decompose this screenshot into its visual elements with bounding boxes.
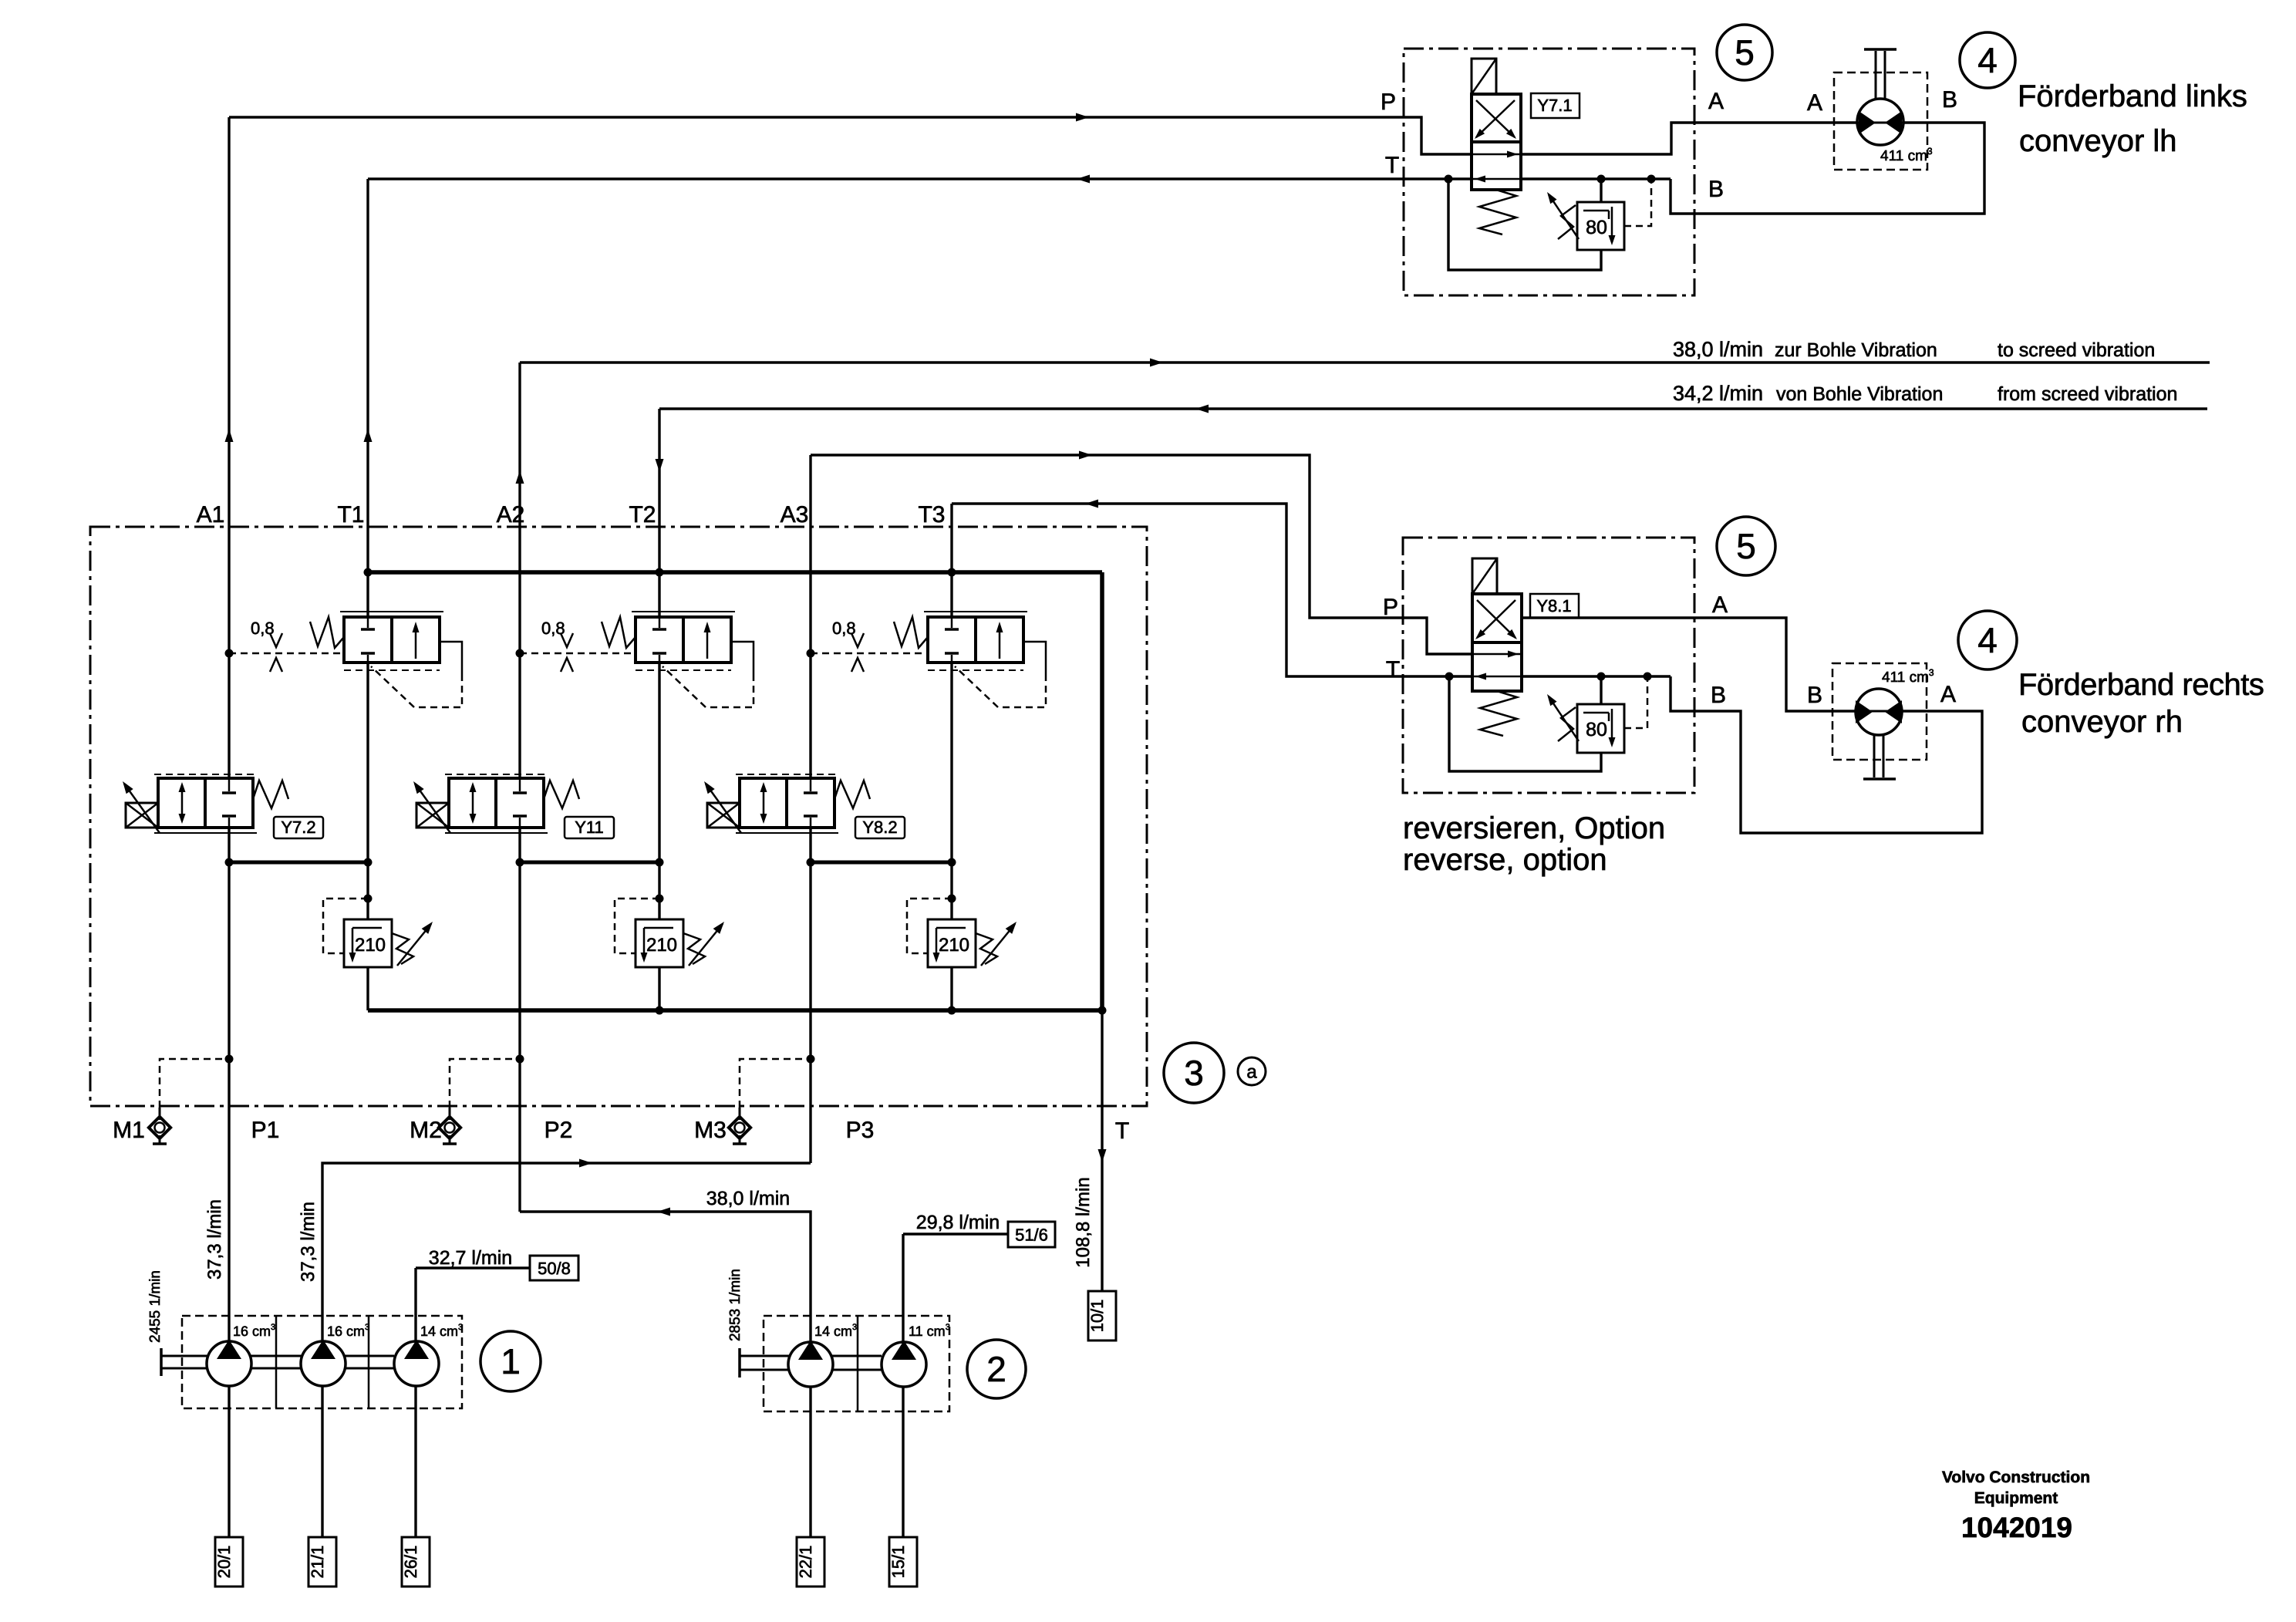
svg-text:Volvo Construction: Volvo Construction [1942, 1469, 2090, 1486]
compensator spring 2 [602, 617, 636, 648]
callout circle 2 [967, 1340, 1026, 1398]
wire conveyor-lh B step [1671, 123, 1984, 214]
pump group 2 enclosure [764, 1316, 949, 1411]
svg-text:37,3 l/min: 37,3 l/min [298, 1202, 319, 1282]
pump 1-2 [301, 1341, 346, 1386]
spring below valve Y7.1 [1479, 190, 1516, 234]
svg-text:A1: A1 [197, 502, 225, 528]
svg-text:4: 4 [1977, 620, 1998, 660]
wire P2 to pump2-1 (38,0 l/min) [520, 1212, 811, 1342]
svg-text:conveyor lh: conveyor lh [2019, 124, 2177, 158]
wire conveyor-rh A line [1520, 618, 1856, 711]
wire A1/P1 riser [228, 117, 230, 778]
wire A3/P3 riser [809, 455, 811, 778]
pump group 1 shaft [161, 1355, 394, 1357]
solenoid of valve Y8.1 [1472, 558, 1497, 594]
callout circle 4 upper [1960, 32, 2015, 88]
valve block 5 lower enclosure (dash-dot) [1403, 538, 1694, 793]
wire von Bohle Vibration line [659, 407, 2207, 410]
svg-text:B: B [1807, 683, 1822, 708]
pump group 1 enclosure [182, 1316, 462, 1408]
label Y7.1 [1531, 93, 1580, 118]
pump 1-1 [207, 1341, 251, 1386]
svg-text:26/1: 26/1 [401, 1546, 420, 1579]
relief 80 lower adjust arrow [1549, 696, 1579, 741]
wire pump2-1 lower to connector 22/1 [809, 1387, 811, 1537]
motor rh drain shaft [1873, 735, 1876, 777]
svg-text:a: a [1246, 1061, 1257, 1082]
svg-text:T3: T3 [918, 502, 945, 528]
connector 51/6 [1008, 1222, 1055, 1247]
svg-text:21/1: 21/1 [308, 1546, 327, 1579]
svg-text:Y8.1: Y8.1 [1536, 596, 1571, 615]
svg-text:P: P [1383, 595, 1398, 620]
motor lh drain shaft [1875, 51, 1877, 99]
svg-text:T: T [1386, 657, 1400, 683]
wire pump1-3 to 50/8 [416, 1266, 530, 1269]
svg-text:38,0 l/min: 38,0 l/min [1673, 338, 1763, 361]
wire A3 to conveyor-rh P port [811, 455, 1472, 654]
measuring port M2 pilot (dashed) [450, 1059, 520, 1108]
svg-text:29,8 l/min: 29,8 l/min [916, 1212, 1000, 1233]
node T3 lower gallery [948, 1007, 956, 1015]
pilot orifice marks 3 [851, 633, 864, 647]
svg-text:A: A [1712, 592, 1728, 618]
wire relief 80 lower pilot (dashed) [1624, 676, 1647, 728]
pressure relief valve 210 section 3 [928, 919, 976, 967]
wire pump1-2 to P3 port [322, 1163, 811, 1340]
wire relief 80 top stub [1600, 179, 1602, 202]
svg-text:210: 210 [939, 935, 969, 956]
pressure relief valve 80 (conveyor lh) [1577, 202, 1624, 250]
wire T gallery upper (bold) [368, 570, 1102, 575]
node T2 lower gallery [656, 1007, 664, 1015]
relief 210 pilot 1 (dashed) [323, 899, 368, 953]
wire T return from conveyor-lh valve [368, 177, 1671, 180]
svg-text:2: 2 [986, 1349, 1006, 1389]
pilot orifice marks 2 [561, 633, 573, 647]
spring below valve Y8.1 [1480, 691, 1517, 736]
svg-text:Equipment: Equipment [1974, 1489, 2058, 1507]
svg-text:411 cm3: 411 cm3 [1882, 667, 1934, 686]
hydraulic motor M4 rh [1856, 689, 1902, 735]
pressure compensator section 3 [924, 611, 1027, 612]
motor conveyor lh enclosure [1834, 73, 1927, 170]
callout circle a [1238, 1057, 1266, 1085]
proportional directional valve section 2 (solenoid Y11) [445, 774, 548, 775]
svg-text:A: A [1807, 90, 1822, 116]
wire relief Y8.1 bypass loop [1449, 676, 1601, 771]
node T3 gallery junction [948, 568, 956, 577]
svg-text:22/1: 22/1 [796, 1546, 815, 1579]
node T2 gallery junction [656, 568, 664, 577]
svg-text:reverse, option: reverse, option [1403, 843, 1607, 877]
connector 10/1 [1088, 1291, 1116, 1340]
pump 2-2 [882, 1342, 926, 1387]
compensator pilot line 1 (dashed) [229, 653, 344, 655]
relief 210 spring 3 [976, 933, 997, 964]
wire T3 to conveyor-rh T port [952, 504, 1671, 676]
svg-text:B: B [1711, 683, 1726, 708]
svg-text:P3: P3 [846, 1118, 875, 1143]
svg-text:P2: P2 [544, 1118, 573, 1143]
solenoid box section 2 [416, 803, 449, 828]
measuring port M3 pilot (dashed) [740, 1059, 811, 1108]
svg-text:210: 210 [646, 935, 677, 956]
svg-text:80: 80 [1586, 217, 1607, 238]
svg-text:16 cm3: 16 cm3 [233, 1323, 275, 1339]
relief 210 pilot 2 (dashed) [615, 899, 659, 953]
relief 80 adjust arrow [1549, 194, 1579, 239]
wire conveyor-rh B return [1671, 676, 1982, 833]
label Y7.2 [274, 817, 323, 838]
callout circle 4 lower [1958, 611, 2017, 669]
svg-text:Förderband links: Förderband links [2018, 79, 2247, 113]
svg-text:Y7.1: Y7.1 [1537, 96, 1572, 115]
compensator spring 3 [894, 617, 928, 648]
wire T2 riser [658, 409, 660, 617]
pump 1-3 [394, 1341, 439, 1386]
svg-text:A: A [1708, 89, 1724, 114]
svg-text:P: P [1381, 89, 1396, 115]
svg-text:34,2 l/min: 34,2 l/min [1673, 382, 1763, 405]
svg-text:5: 5 [1735, 32, 1755, 73]
svg-text:51/6: 51/6 [1015, 1226, 1048, 1245]
valve spring section 3 [834, 781, 870, 808]
svg-text:Y11: Y11 [575, 818, 604, 837]
valve block 5 upper enclosure (dash-dot) [1404, 49, 1694, 295]
node T2 link [656, 858, 664, 867]
svg-text:T1: T1 [337, 502, 364, 528]
wire relief Y7.1 bypass loop [1448, 179, 1601, 270]
node T3 link [948, 858, 956, 867]
svg-text:Förderband rechts: Förderband rechts [2018, 668, 2264, 702]
connector 22/1 [797, 1537, 824, 1587]
svg-text:14 cm3: 14 cm3 [420, 1323, 463, 1339]
valve spring section 2 [544, 781, 579, 808]
wire zur Bohle Vibration line [520, 361, 2210, 363]
svg-text:2853 1/min: 2853 1/min [727, 1269, 743, 1341]
svg-text:14 cm3: 14 cm3 [814, 1323, 857, 1339]
directional valve Y7.1 body [1472, 94, 1521, 190]
svg-text:B: B [1708, 177, 1724, 202]
proportional directional valve section 3 (solenoid Y8.2) [736, 774, 838, 775]
svg-text:32,7 l/min: 32,7 l/min [429, 1247, 512, 1269]
svg-text:10/1: 10/1 [1087, 1300, 1107, 1333]
motor conveyor rh enclosure [1832, 663, 1927, 760]
svg-text:conveyor rh: conveyor rh [2021, 705, 2183, 739]
svg-text:zur Bohle Vibration: zur Bohle Vibration [1775, 339, 1937, 361]
label Y8.1 [1530, 594, 1579, 618]
svg-text:von Bohle Vibration: von Bohle Vibration [1776, 383, 1943, 405]
svg-text:M1: M1 [113, 1118, 145, 1143]
svg-text:M2: M2 [410, 1118, 442, 1143]
node pilot tap [1647, 175, 1656, 184]
svg-text:2455 1/min: 2455 1/min [147, 1270, 164, 1343]
solenoid box section 3 [707, 803, 740, 828]
measuring port M2 symbol [449, 1108, 451, 1120]
node relief stub 2 [1597, 673, 1606, 681]
svg-text:411 cm3: 411 cm3 [1880, 146, 1933, 164]
node A2 link [516, 858, 524, 867]
solenoid of valve Y7.1 [1472, 59, 1496, 94]
pump group 2 shaft [740, 1355, 882, 1357]
measuring port M3 symbol [739, 1108, 741, 1120]
wire A2/P2 riser [518, 363, 521, 778]
compensator drain pilot 3 [1023, 642, 1046, 674]
label Y8.2 [855, 817, 905, 838]
svg-text:Y8.2: Y8.2 [862, 818, 897, 837]
callout circle 1 [480, 1331, 541, 1391]
valve spring section 1 [253, 781, 288, 808]
node pilot tap 2 [1644, 673, 1652, 681]
wire relief 80 pilot (dashed) [1624, 179, 1651, 226]
pressure compensator section 1 [340, 611, 443, 612]
svg-text:80: 80 [1586, 719, 1607, 740]
solenoid box section 1 [126, 803, 158, 828]
node A3 link [807, 858, 815, 867]
control block enclosure (dash-dot) [90, 527, 1147, 1106]
compensator drain pilot 2 [731, 642, 754, 674]
svg-text:P1: P1 [251, 1118, 280, 1143]
pressure relief valve 80 (conveyor rh) [1577, 704, 1624, 753]
svg-text:1: 1 [501, 1341, 521, 1381]
wire T port to tank connector 10/1 [1101, 1010, 1103, 1291]
relief 210 spring 2 [683, 933, 705, 964]
connector 21/1 [308, 1537, 336, 1587]
svg-text:T: T [1385, 153, 1399, 178]
measuring port M1 symbol [159, 1108, 161, 1120]
wire section1 A1-T1 link [229, 861, 368, 865]
svg-text:37,3 l/min: 37,3 l/min [204, 1199, 225, 1280]
svg-text:5: 5 [1736, 526, 1756, 566]
node T gallery corner [1098, 1007, 1107, 1015]
pilot orifice marks 1 [270, 633, 282, 647]
node relief stub [1597, 175, 1606, 184]
compensator drain pilot 1 [440, 642, 462, 674]
wire P supply to conveyor-lh valve [229, 117, 1472, 154]
svg-text:108,8 l/min: 108,8 l/min [1073, 1177, 1094, 1267]
callout circle 3 [1164, 1043, 1224, 1103]
node T1 link [364, 858, 373, 867]
node T-B junction 1 [1445, 175, 1453, 184]
svg-text:16 cm3: 16 cm3 [327, 1323, 369, 1339]
svg-text:3: 3 [1184, 1053, 1204, 1093]
wire conveyor-lh A line [1521, 123, 1857, 154]
svg-text:T2: T2 [629, 502, 656, 528]
svg-text:B: B [1942, 87, 1957, 113]
pressure relief valve 210 section 1 [344, 919, 392, 967]
svg-text:Y7.2: Y7.2 [281, 818, 315, 837]
node T1 gallery junction [364, 568, 373, 577]
wire section2 A2-T2 link [520, 861, 659, 865]
pressure relief valve 210 section 2 [636, 919, 683, 967]
svg-text:11 cm3: 11 cm3 [909, 1323, 950, 1339]
wire T gallery lower (bold) [368, 1008, 1102, 1013]
proportional directional valve section 1 (solenoid Y7.2) [154, 774, 257, 775]
compensator spring 1 [310, 617, 344, 648]
connector 20/1 [215, 1537, 243, 1587]
hydraulic motor M4 lh [1857, 99, 1903, 145]
svg-text:M3: M3 [694, 1118, 727, 1143]
relief 210 pilot 3 (dashed) [907, 899, 952, 953]
directional valve Y8.1 body [1472, 594, 1522, 691]
node A1 link [225, 858, 234, 867]
label Y11 [565, 817, 614, 838]
svg-text:50/8: 50/8 [538, 1259, 571, 1278]
pressure compensator section 2 [632, 611, 735, 612]
svg-text:to screed vibration: to screed vibration [1998, 339, 2155, 361]
wire section3 A3-T3 link [811, 861, 952, 865]
measuring port M1 pilot (dashed) [160, 1059, 229, 1108]
wire pump1-2 lower to connector 21/1 [321, 1385, 323, 1537]
wire T1 riser [366, 179, 369, 617]
connector 50/8 [530, 1256, 578, 1280]
svg-text:20/1: 20/1 [214, 1546, 234, 1579]
wire relief 80 lower top stub [1600, 676, 1602, 704]
svg-text:38,0 l/min: 38,0 l/min [706, 1188, 790, 1209]
svg-text:reversieren, Option: reversieren, Option [1403, 811, 1665, 845]
svg-text:210: 210 [355, 935, 386, 956]
svg-text:A2: A2 [497, 502, 525, 528]
callout circle 5 lower [1717, 517, 1775, 575]
svg-text:A: A [1940, 682, 1956, 707]
svg-text:T: T [1115, 1118, 1129, 1144]
svg-text:from screed vibration: from screed vibration [1998, 383, 2177, 405]
connector 15/1 [889, 1537, 917, 1587]
wire T gallery right riser (bold) [1100, 572, 1104, 1010]
relief 210 spring 1 [392, 933, 413, 964]
callout circle 5 upper [1717, 25, 1772, 80]
compensator pilot line 2 (dashed) [520, 653, 636, 655]
wire T3 riser [950, 504, 952, 617]
compensator pilot line 3 (dashed) [811, 653, 928, 655]
pump 2-1 [788, 1342, 833, 1387]
svg-text:15/1: 15/1 [888, 1546, 908, 1579]
svg-text:4: 4 [1977, 40, 1998, 80]
node T-B junction 2 [1445, 673, 1454, 681]
wire pump2-2 to 51/6 [903, 1233, 1008, 1235]
connector 26/1 [402, 1537, 430, 1587]
svg-text:1042019: 1042019 [1961, 1512, 2072, 1543]
svg-text:A3: A3 [781, 502, 809, 528]
